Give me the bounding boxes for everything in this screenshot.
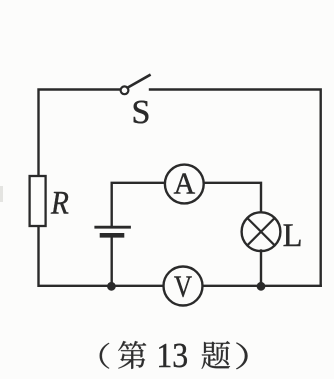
wire battery negative to bottom node	[110, 238, 112, 286]
svg-text:S: S	[132, 94, 151, 131]
svg-text:R: R	[50, 186, 69, 222]
svg-text:L: L	[283, 218, 303, 254]
lamp L	[242, 212, 281, 251]
wire bottom-right segment	[202, 285, 321, 287]
wire bottom-left segment	[39, 226, 164, 286]
svg-text:13: 13	[156, 336, 188, 375]
ammeter A	[165, 165, 204, 204]
wire top-left segment	[39, 90, 121, 177]
caption close paren	[236, 343, 247, 370]
wire lamp to bottom node	[260, 251, 262, 286]
caption char ti (题)	[202, 341, 230, 369]
resistor R	[30, 176, 46, 226]
caption char di (第)	[118, 341, 146, 369]
junction node battery-bottom	[107, 282, 116, 291]
wire top-right segment	[150, 90, 321, 286]
voltmeter V	[164, 267, 203, 306]
svg-text:V: V	[174, 270, 192, 304]
wire battery to ammeter	[112, 183, 165, 226]
battery B1	[96, 227, 130, 235]
switch S	[121, 75, 150, 94]
caption open paren	[100, 343, 110, 369]
junction node lamp-bottom	[257, 282, 266, 291]
wire ammeter to lamp	[204, 183, 261, 213]
svg-text:A: A	[174, 166, 196, 201]
